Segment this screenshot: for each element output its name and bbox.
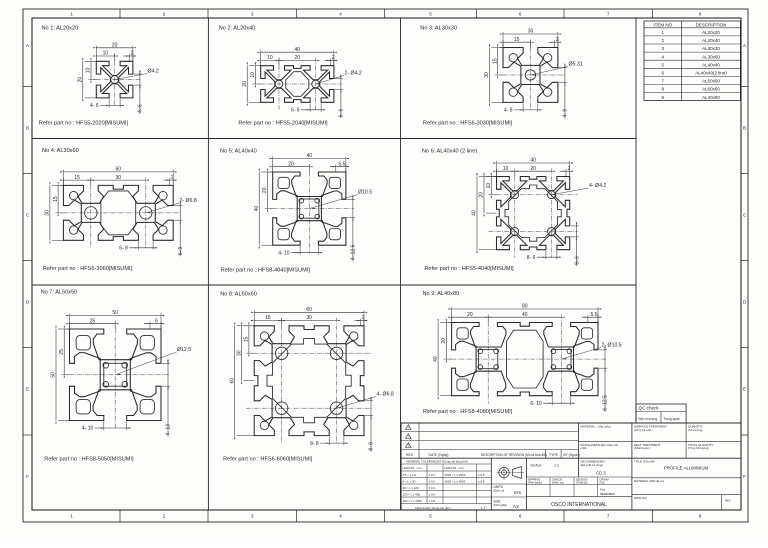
No2 bottom slot dimension 6-6: [309, 103, 311, 112]
svg-text:PROFILE ALUMINIUM: PROFILE ALUMINIUM: [664, 466, 709, 471]
No5 left dimension 40: [261, 171, 273, 173]
projection symbol box: [491, 458, 526, 510]
svg-text:6: 6: [155, 318, 158, 324]
svg-text:30: 30: [484, 72, 490, 78]
No8 top dimension 30: [282, 320, 337, 322]
svg-text:1: 1: [70, 12, 73, 17]
svg-text:1:1: 1:1: [554, 464, 559, 468]
svg-text:4- 8: 4- 8: [504, 108, 513, 114]
svg-text:50: 50: [51, 372, 57, 378]
No5 centre lines: [265, 208, 354, 210]
svg-text:6- 8: 6- 8: [119, 246, 128, 252]
company name box: [526, 496, 632, 498]
svg-text:60: 60: [116, 167, 122, 173]
svg-text:± 0.3: ± 0.3: [429, 486, 436, 490]
No8 hole leader 4-Ø6.8: [337, 397, 376, 409]
svg-text:B: B: [743, 125, 746, 130]
svg-text:4: 4: [339, 12, 342, 17]
material code box: [632, 479, 741, 495]
svg-text:QC check: QC check: [639, 406, 660, 411]
cell border vertical col3/right margin: [635, 18, 637, 423]
No4 top dimension 60: [62, 170, 64, 186]
svg-text:± 0.1: ± 0.1: [429, 473, 436, 477]
QC check box: [636, 404, 686, 423]
profile No3 AL30x30 outline: [503, 48, 558, 103]
No8 top dimension 15: [253, 319, 255, 326]
svg-text:Refer part no : HFS8-5050[MISU: Refer part no : HFS8-5050[MISUMI]: [44, 457, 134, 463]
No8 top dimension 2 (lip): [359, 319, 361, 326]
svg-text:AL40x80: AL40x80: [702, 95, 720, 100]
svg-text:E: E: [26, 387, 29, 392]
profile No5 AL40x40 outline: [273, 172, 346, 245]
No6 top dimension 10: [496, 169, 498, 176]
svg-text:(Xử lý bề mặt ): (Xử lý bề mặt ): [634, 428, 653, 432]
No1 top dimension 20: [95, 46, 97, 62]
svg-text:Ø4.2: Ø4.2: [148, 69, 159, 75]
svg-text:(Phê duyệt): (Phê duyệt): [528, 481, 542, 485]
svg-text:Refer part no : HFS6-3030[MISU: Refer part no : HFS6-3030[MISUMI]: [423, 121, 513, 127]
No8 right slot dimension 8-9: [365, 400, 373, 402]
No8 top dimension 60: [253, 310, 255, 326]
svg-text:mm: mm: [514, 490, 521, 495]
cell border horizontal row1/row2: [32, 138, 636, 140]
svg-text:MATERIAL (Mã vật tư): MATERIAL (Mã vật tư): [634, 479, 664, 483]
svg-text:400 < L ≤ 1000: 400 < L ≤ 1000: [403, 499, 423, 503]
No2 centre holes Ø4.2: [275, 80, 283, 88]
No3 centre hole Ø5.31: [525, 70, 535, 80]
No9 centre holes 2-Ø10.5: [479, 350, 498, 369]
No9 centre lines: [444, 358, 606, 360]
No2 top dimension 40: [260, 50, 262, 65]
svg-text:40: 40: [433, 356, 439, 362]
No4 right slot dimension 6-9: [174, 205, 182, 207]
No4 top dimension 30: [91, 179, 146, 181]
No8 central cavity: [267, 339, 351, 423]
svg-text:2000 < L ≤ 4000: 2000 < L ≤ 4000: [445, 480, 466, 484]
svg-text:Refer part no : HFS8-4080[MISU: Refer part no : HFS8-4080[MISUMI]: [423, 409, 513, 415]
revision table: [401, 423, 741, 458]
svg-text:80: 80: [522, 304, 528, 310]
No2 hole leader 2-Ø4.2: [316, 76, 344, 85]
svg-text:(Số Lượng): (Số Lượng): [688, 428, 703, 432]
No7 left dimension 25: [66, 328, 69, 330]
svg-text:5: 5: [429, 514, 432, 519]
svg-text:20: 20: [441, 338, 447, 344]
No7 top dimension 25: [69, 322, 71, 329]
svg-text:8- 6: 8- 6: [574, 256, 580, 265]
No8 bottom slot dimension 8-8: [328, 437, 330, 446]
profile No9 AL40x80 outline: [452, 323, 598, 396]
No5 bottom slot dimension 4-10: [299, 246, 301, 255]
svg-text:15: 15: [514, 37, 520, 43]
No6 bottom slot dimension 8-6: [545, 251, 547, 260]
svg-text:30: 30: [236, 350, 242, 356]
svg-text:Prof: Prof: [600, 488, 605, 492]
No3 corner holes: [509, 54, 517, 62]
svg-text:(Tổng Số lượng): (Tổng Số lượng): [688, 446, 709, 450]
No4 left dimension 15: [60, 184, 63, 186]
svg-text:4- 13: 4- 13: [166, 424, 172, 436]
svg-text:7: 7: [607, 12, 610, 17]
revision triangle 1: [406, 425, 412, 430]
svg-text:REV: REV: [406, 453, 414, 457]
svg-text:6: 6: [519, 514, 522, 519]
svg-text:(Đề xuất sử dụng): (Đề xuất sử dụng): [581, 463, 604, 467]
svg-text:± 0.8: ± 0.8: [478, 480, 485, 484]
svg-text:DATE (Ngày): DATE (Ngày): [429, 453, 449, 457]
svg-text:2: 2: [163, 12, 166, 17]
svg-text:AL30x30: AL30x30: [702, 46, 720, 51]
No6 central cavity: [505, 185, 561, 241]
svg-text:Ø12.5: Ø12.5: [177, 347, 191, 353]
svg-text:(Đơn vị): (Đơn vị): [494, 489, 505, 493]
No7 top dimension 6 (lip): [149, 322, 151, 329]
No6 top dimension 2 (lip): [565, 169, 567, 176]
svg-text:25: 25: [59, 349, 65, 355]
svg-text:AL50x50: AL50x50: [702, 79, 720, 84]
heat treatment box: [634, 443, 661, 450]
svg-text:Refer part no : HFS6-6060[MISU: Refer part no : HFS6-6060[MISUMI]: [223, 457, 313, 463]
No3 top dimension 2 (lip): [553, 40, 555, 47]
No4 top dimension 15: [62, 178, 64, 185]
svg-text:AL40x40: AL40x40: [702, 62, 720, 67]
svg-text:DESCRIPTION OF REVISION (Mô tả: DESCRIPTION OF REVISION (Mô tả sửa đổi): [481, 453, 547, 457]
svg-text:4- 10: 4- 10: [82, 426, 94, 432]
svg-text:Ø5.31: Ø5.31: [569, 62, 583, 68]
No5 centre hole Ø10.5: [300, 199, 319, 218]
svg-text:2- Ø10.5: 2- Ø10.5: [602, 343, 622, 349]
svg-text:3: 3: [251, 12, 254, 17]
total quantity box: [688, 443, 713, 450]
No4 top dimension 2 (lip): [169, 178, 171, 185]
svg-text:10: 10: [86, 67, 92, 73]
svg-text:40: 40: [307, 153, 313, 159]
No1 hole leader Ø4.2: [115, 74, 147, 80]
No5 top dimension 5.5 (lip): [335, 165, 337, 172]
No5 corner holes (rounded squares): [278, 177, 289, 188]
No7 left dimension 50: [58, 328, 70, 330]
svg-text:No 8: AL60x60: No 8: AL60x60: [220, 292, 257, 298]
general tolerances table: [401, 458, 491, 510]
svg-text:6- 10: 6- 10: [530, 401, 542, 407]
svg-text:10: 10: [486, 183, 492, 189]
No7 right slot dimension 4-13: [162, 362, 170, 364]
No9 top dimension 40: [488, 316, 561, 318]
cell border horizontal row2/row3: [32, 284, 636, 286]
svg-text:40: 40: [530, 158, 536, 164]
svg-text:(Vẽ): (Vẽ): [600, 481, 605, 485]
No9 bottom slot dimension 6-10: [551, 397, 553, 406]
svg-text:5: 5: [429, 12, 432, 17]
svg-text:Refer part no : HFS5-2020[MISU: Refer part no : HFS5-2020[MISUMI]: [39, 121, 129, 127]
scale box: [526, 476, 632, 478]
profile No1 AL20x20 outline: [96, 61, 133, 98]
svg-text:20: 20: [295, 55, 301, 61]
No1 centre lines: [88, 79, 141, 81]
No7 bottom slot dimension 4-10: [103, 422, 105, 431]
svg-text:ANGULAR ( Dung sai góc ): ANGULAR ( Dung sai góc ): [415, 506, 452, 510]
No2 right slot dimension 6-6: [335, 78, 343, 80]
No9 top dimension 20: [451, 315, 453, 322]
No4 central octagon cavity: [101, 191, 136, 235]
svg-text:F: F: [26, 474, 29, 479]
svg-text:6: 6: [519, 12, 522, 17]
title box: [632, 460, 741, 478]
No2 left dimension 10: [257, 65, 260, 67]
svg-text:(Kiểm tra): (Kiểm tra): [552, 481, 564, 485]
No4 bottom slot dimension 6-8: [137, 241, 139, 250]
svg-text:8: 8: [699, 514, 702, 519]
svg-text:2- Ø6.8: 2- Ø6.8: [180, 198, 197, 204]
No8 centre lines: [246, 352, 372, 354]
profile No8 AL60x60 outline: [254, 326, 364, 436]
svg-text:2: 2: [332, 55, 335, 61]
svg-text:2: 2: [556, 37, 559, 43]
svg-text:± 0.5: ± 0.5: [429, 493, 436, 497]
svg-text:30: 30: [528, 29, 534, 35]
No7 centre hole Ø12.5: [104, 363, 127, 386]
svg-text:40: 40: [472, 210, 478, 216]
svg-text:Refer part no : HFS5-4040[MISU: Refer part no : HFS5-4040[MISUMI]: [424, 266, 514, 272]
svg-text:3: 3: [251, 514, 254, 519]
No3 right slot dimension 4-9: [559, 67, 567, 69]
svg-text:Trọng quan: Trọng quan: [664, 417, 680, 421]
item table rows: [644, 30, 740, 100]
svg-text:8- 9: 8- 9: [369, 442, 375, 451]
title block outline: [401, 423, 741, 510]
svg-text:4- 10: 4- 10: [278, 250, 290, 256]
item table frame: [644, 21, 740, 101]
svg-text:2- Ø4.2: 2- Ø4.2: [345, 71, 362, 77]
svg-text:Refer part no : HFS8-4040[MISU: Refer part no : HFS8-4040[MISUMI]: [221, 268, 311, 274]
svg-text:20: 20: [530, 166, 536, 172]
svg-text:10: 10: [267, 55, 273, 61]
svg-text:No 9: AL40x80: No 9: AL40x80: [423, 291, 460, 297]
svg-text:7: 7: [607, 514, 610, 519]
No7 hole leader Ø12.5: [115, 352, 176, 375]
svg-text:4- 6: 4- 6: [90, 103, 99, 109]
svg-text:F: F: [743, 474, 746, 479]
No8 left dimension 30: [244, 325, 255, 327]
svg-text:TITLE (Tiêu đề): TITLE (Tiêu đề): [634, 460, 655, 464]
svg-text:15: 15: [53, 196, 59, 202]
No3 top dimension 15: [502, 40, 504, 47]
svg-text:Ø10.5: Ø10.5: [358, 190, 372, 196]
No9 central octagon cavity: [507, 330, 544, 388]
profile No6 AL40x40(2line) outline: [497, 177, 570, 250]
No5 top dimension 40: [272, 157, 274, 173]
svg-text:OSCO INTERNATIONAL: OSCO INTERNATIONAL: [551, 502, 607, 508]
No3 bottom slot dimension 4-8: [522, 103, 524, 112]
No4 centre lines: [55, 212, 181, 214]
svg-text:B: B: [26, 125, 29, 130]
No6 centre lines: [489, 194, 578, 196]
svg-text:2: 2: [131, 51, 134, 57]
svg-text:4- Ø6.8: 4- Ø6.8: [377, 392, 394, 398]
svg-text:± 0.2: ± 0.2: [429, 480, 436, 484]
svg-text:DESCRIPTION: DESCRIPTION: [696, 22, 727, 27]
svg-text:6- 12.5: 6- 12.5: [603, 395, 609, 411]
No1 top dimension 2 (lip): [128, 54, 130, 61]
roughness box: [581, 443, 619, 450]
revision triangle 3: [406, 443, 412, 448]
svg-text:AL40x40(2 line): AL40x40(2 line): [695, 71, 727, 76]
No2 top dimension 10: [260, 58, 262, 65]
svg-text:50: 50: [112, 310, 118, 316]
No9 hole leader 2-Ø10.5: [561, 348, 601, 360]
No4 hole leader 2-Ø6.8: [146, 203, 179, 213]
svg-text:± 0.5: ± 0.5: [478, 473, 485, 477]
svg-text:30: 30: [45, 210, 51, 216]
svg-text:mặt): mặt): [581, 446, 587, 450]
No2 central octagon cavity: [286, 72, 309, 97]
svg-text:15: 15: [492, 58, 498, 64]
cell border vertical col2/col3: [400, 18, 402, 510]
svg-text:6- 6: 6- 6: [291, 108, 300, 114]
grid row letters left: [23, 43, 32, 479]
No8 module holes Ø6.8: [275, 347, 287, 359]
No9 top dimension 5.5 (lip): [587, 315, 589, 322]
svg-text:15: 15: [74, 175, 80, 181]
svg-text:5.5: 5.5: [591, 312, 598, 318]
No6 left dimension 10: [493, 176, 496, 178]
svg-text:30 < L ≤ 120: 30 < L ≤ 120: [403, 486, 419, 490]
svg-text:(Khổ giấy): (Khổ giấy): [494, 503, 508, 507]
svg-text:(Thiết kế): (Thiết kế): [576, 481, 587, 485]
svg-text:BY (Người): BY (Người): [564, 453, 580, 457]
svg-text:TYPE: TYPE: [549, 453, 559, 457]
svg-text:2: 2: [568, 166, 571, 172]
No9 right slot dimension 6-12.5: [599, 349, 607, 351]
No3 top dimension 30: [502, 32, 504, 48]
No7 centre lines: [62, 374, 170, 376]
item table header: [644, 27, 740, 29]
svg-text:ITEM NO: ITEM NO: [653, 22, 672, 27]
svg-text:120 < L ≤ 400: 120 < L ≤ 400: [403, 493, 421, 497]
svg-text:8- 6: 8- 6: [527, 255, 536, 261]
svg-text:20: 20: [112, 43, 118, 49]
svg-text:No 4: AL30x60: No 4: AL30x60: [42, 148, 79, 154]
profile No4 AL30x60 outline: [63, 185, 173, 240]
svg-text:LENGTH : mm: LENGTH : mm: [403, 466, 423, 470]
svg-text:DWG NO.: DWG NO.: [634, 496, 648, 500]
svg-text:Refer part no : HFS5-2040[MISU: Refer part no : HFS5-2040[MISUMI]: [238, 121, 328, 127]
No6 hole leader 4-Ø4.2: [551, 188, 588, 195]
svg-text:1000 < L ≤ 2000: 1000 < L ≤ 2000: [445, 473, 466, 477]
svg-text:SCALE: SCALE: [531, 464, 543, 468]
svg-text:40: 40: [522, 312, 528, 318]
svg-text:30: 30: [116, 175, 122, 181]
svg-text:No 5: AL40x40: No 5: AL40x40: [220, 149, 257, 155]
svg-text:20: 20: [479, 192, 485, 198]
svg-text:6- 6: 6- 6: [339, 108, 345, 117]
quantity box: [688, 425, 703, 433]
No9 top dimension 80: [451, 307, 453, 323]
svg-text:4- 6: 4- 6: [138, 104, 144, 113]
svg-text:MATERIAL : (Vật Liệu): MATERIAL : (Vật Liệu): [581, 425, 611, 429]
No6 left dimension 20: [486, 176, 497, 178]
No4 left dimension 30: [52, 184, 64, 186]
No8 corner holes: [260, 332, 268, 340]
No1 left dimension 10: [93, 60, 96, 62]
No6 right slot dimension 8-6: [571, 225, 579, 227]
svg-text:No 3: AL30x30: No 3: AL30x30: [420, 26, 457, 32]
No5 hole leader Ø10.5: [309, 195, 357, 209]
svg-text:10: 10: [103, 51, 109, 57]
svg-text:A3: A3: [513, 504, 519, 509]
svg-text:15: 15: [265, 315, 271, 321]
No9 corner holes (rounded squares): [457, 328, 468, 339]
svg-text:No 2: AL20x40: No 2: AL20x40: [219, 26, 256, 32]
svg-text:AL30x60: AL30x60: [702, 54, 720, 59]
svg-text:AL60x60: AL60x60: [702, 87, 720, 92]
grid column numbers bottom: [70, 510, 702, 522]
svg-text:20: 20: [288, 161, 294, 167]
No5 left dimension 20: [269, 171, 272, 173]
No1 centre hole Ø4.2: [111, 76, 119, 84]
No3 hole leader Ø5.31: [531, 67, 569, 76]
svg-text:40: 40: [254, 206, 260, 212]
units box: [491, 496, 526, 498]
svg-text:0.5 < L ≤ 6: 0.5 < L ≤ 6: [403, 473, 417, 477]
svg-text:(Nhiệt luyện ): (Nhiệt luyện ): [634, 446, 651, 450]
svg-text:4- Ø4.2: 4- Ø4.2: [589, 183, 606, 189]
No6 top dimension 20: [515, 170, 552, 172]
dwg no box: [634, 495, 731, 510]
No4 corner holes: [69, 191, 77, 199]
svg-text:REMEMBER: REMEMBER: [600, 492, 615, 496]
No1 top dimension 10: [95, 54, 97, 61]
svg-text:No 6: AL40x40 (2 line): No 6: AL40x40 (2 line): [422, 149, 477, 155]
svg-text:6- 9: 6- 9: [178, 246, 184, 255]
revision triangle 2: [406, 434, 412, 439]
No1 left dimension 20: [85, 60, 97, 62]
No8 left dimension 15: [251, 325, 254, 327]
No4 centre holes Ø6.8: [85, 207, 97, 219]
svg-text:4: 4: [339, 514, 342, 519]
No5 right slot dimension 4-12.5: [347, 198, 355, 200]
svg-text:60: 60: [306, 307, 312, 313]
profile No7 AL50x50 outline: [70, 329, 162, 421]
No8 left dimension 60: [237, 325, 255, 327]
svg-text:5.5: 5.5: [338, 161, 345, 167]
No2 left dimension 20: [249, 65, 261, 67]
svg-text:20: 20: [78, 77, 84, 83]
No2 centre lines: [253, 83, 342, 85]
No1 right slot dimension 4-6: [134, 73, 142, 75]
svg-text:20: 20: [467, 312, 473, 318]
No6 top dimension 40: [496, 161, 498, 177]
No5 top dimension 20: [272, 165, 274, 172]
No6 module holes Ø4.2: [511, 191, 519, 199]
profile No2 AL20x40 outline: [261, 66, 334, 103]
No2 top dimension 20: [279, 59, 316, 61]
svg-text:± 0.8: ± 0.8: [429, 499, 436, 503]
svg-text:2: 2: [163, 514, 166, 519]
No2 top dimension 2 (lip): [329, 58, 331, 65]
svg-text:GENERAL TOLERANCES (Dung sai t: GENERAL TOLERANCES (Dung sai tổng thể): [406, 460, 468, 464]
svg-text:AL20x20: AL20x20: [702, 30, 720, 35]
svg-text:CD.3: CD.3: [596, 471, 606, 476]
svg-text:4- 12.5: 4- 12.5: [351, 244, 357, 260]
No3 centre lines: [495, 74, 566, 76]
svg-text:2: 2: [171, 175, 174, 181]
No7 corner holes (rounded squares): [76, 336, 90, 350]
grid column numbers top: [70, 9, 702, 18]
svg-text:LENGTH : mm: LENGTH : mm: [445, 466, 465, 470]
No9 left dimension 20: [448, 322, 451, 324]
recommended box: [577, 458, 579, 477]
